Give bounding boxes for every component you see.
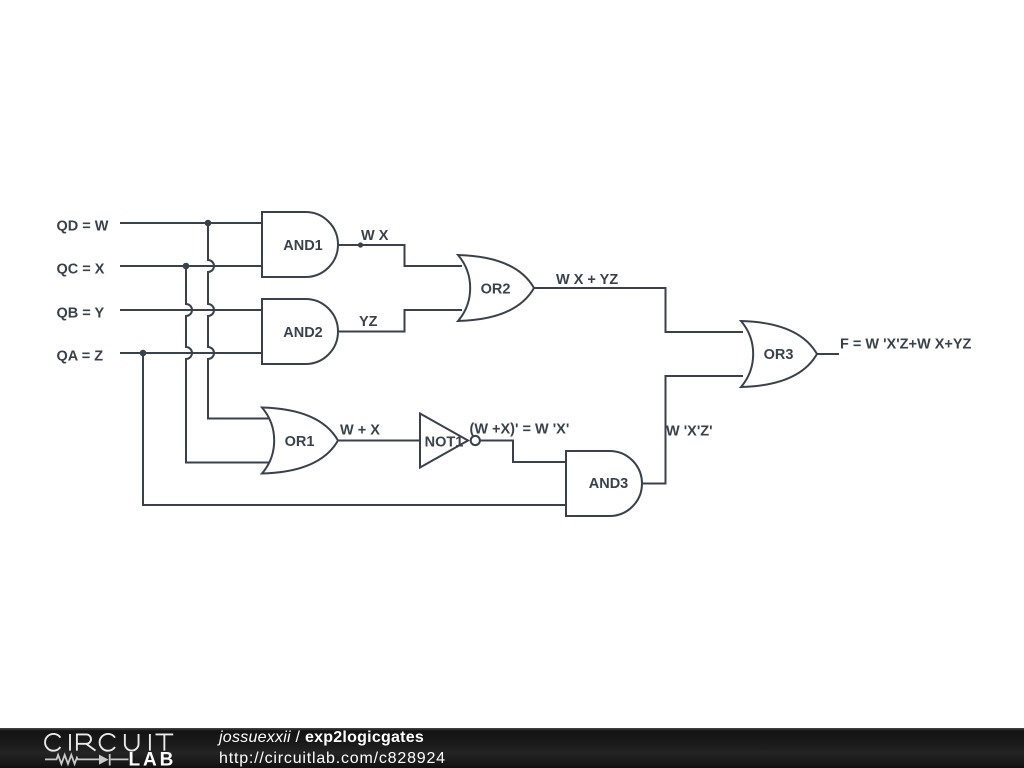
svg-text:QA = Z: QA = Z (57, 349, 104, 365)
svg-text:NOT1: NOT1 (425, 435, 464, 451)
svg-text:QC = X: QC = X (57, 262, 105, 278)
svg-text:OR2: OR2 (481, 282, 511, 298)
svg-text:QB = Y: QB = Y (57, 306, 105, 322)
svg-text:OR1: OR1 (285, 434, 315, 450)
svg-text:YZ: YZ (359, 314, 378, 330)
svg-text:AND3: AND3 (589, 476, 628, 492)
svg-text:(W +X)' = W 'X': (W +X)' = W 'X' (470, 422, 570, 438)
svg-text:W X + YZ: W X + YZ (556, 272, 618, 288)
svg-text:OR3: OR3 (764, 347, 794, 363)
svg-text:W + X: W + X (340, 423, 380, 439)
svg-text:QD = W: QD = W (57, 219, 109, 235)
svg-text:W 'X'Z': W 'X'Z' (666, 424, 713, 440)
svg-text:LAB: LAB (129, 750, 177, 768)
svg-text:W X: W X (361, 228, 389, 244)
svg-text:F = W 'X'Z+W X+YZ: F = W 'X'Z+W X+YZ (840, 337, 972, 353)
svg-text:AND1: AND1 (283, 238, 322, 254)
svg-text:AND2: AND2 (283, 325, 322, 341)
